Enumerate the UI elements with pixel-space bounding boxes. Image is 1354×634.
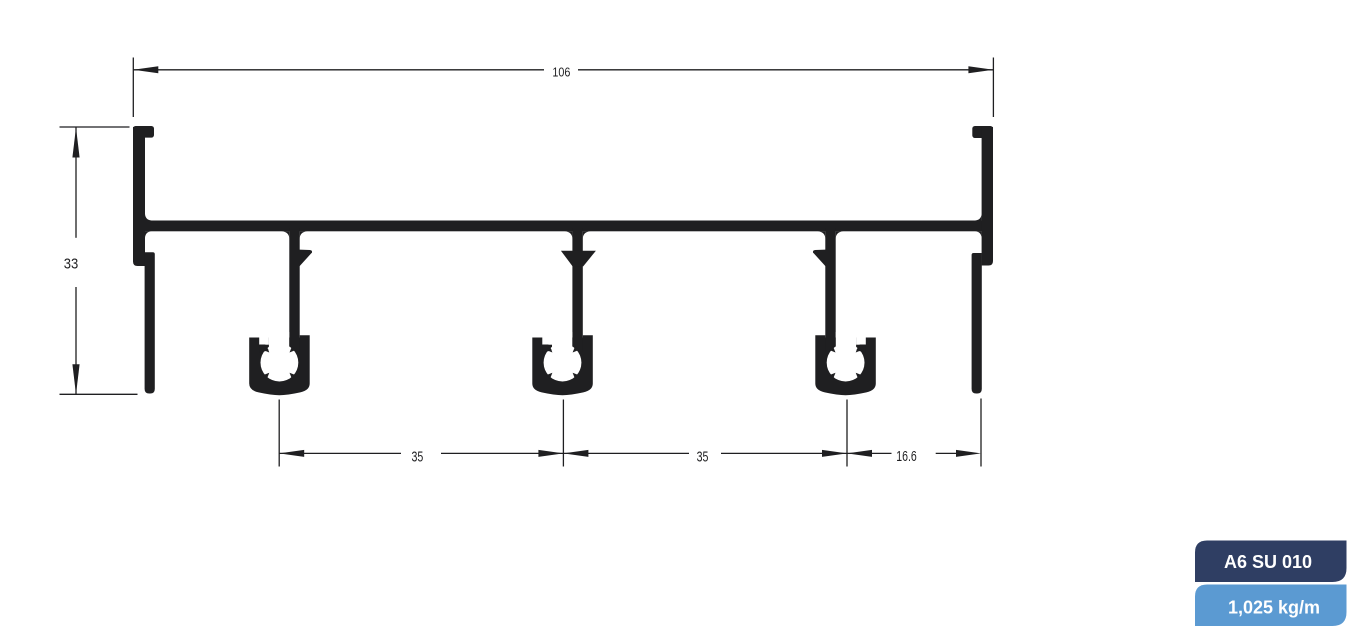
extension line a <box>278 400 280 467</box>
main horizontal web <box>133 221 993 232</box>
svg-text:106: 106 <box>552 64 570 79</box>
extension line top <box>60 126 130 128</box>
svg-text:33: 33 <box>64 256 79 272</box>
extension line b <box>562 400 564 467</box>
dim line 35 second <box>563 452 689 454</box>
svg-text:35: 35 <box>697 449 709 465</box>
left wall-web fillet bottom <box>145 231 152 238</box>
right wall-web fillet top <box>975 214 982 221</box>
right top hook lip <box>972 126 993 138</box>
right lower leg <box>972 253 982 394</box>
extension line bottom <box>60 393 138 395</box>
hanger 3 barb (mirrored) <box>813 250 826 267</box>
hanger 1: stem + screw boss <box>249 228 310 395</box>
extension line d <box>980 399 982 467</box>
dim line 16.6 <box>847 452 892 454</box>
dim line 35 first <box>279 452 401 454</box>
hanger 3: stem + screw boss (mirrored) <box>815 228 876 395</box>
svg-text:A6 SU 010: A6 SU 010 <box>1224 552 1312 572</box>
hanger 2: stem + screw boss <box>532 228 593 395</box>
right outer wall <box>982 127 993 266</box>
dim line 33 <box>75 128 77 238</box>
svg-text:16.6: 16.6 <box>896 449 917 465</box>
extension line right <box>992 58 994 118</box>
left top hook lip <box>133 126 154 138</box>
weight badge <box>1195 585 1347 627</box>
svg-text:35: 35 <box>412 449 424 465</box>
hanger 2 arrowhead barb <box>561 251 596 267</box>
right wall-web fillet bottom <box>975 231 982 238</box>
hanger 1 barb <box>300 250 313 267</box>
left outer wall <box>133 127 145 266</box>
svg-text:1,025 kg/m: 1,025 kg/m <box>1228 598 1320 618</box>
left lower leg <box>145 252 155 393</box>
extension line c <box>846 400 848 467</box>
left wall-web fillet top <box>145 214 152 221</box>
dim line 106 <box>133 69 544 71</box>
extension line left <box>132 58 134 118</box>
